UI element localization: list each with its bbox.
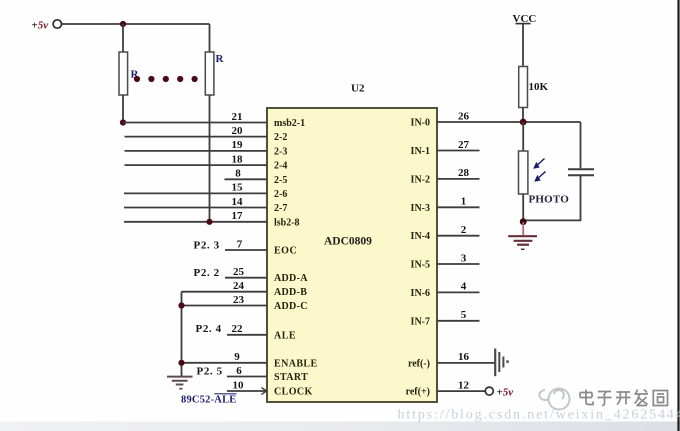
node junction line23/vertical — [178, 302, 184, 308]
wire ADD-A pin 25 — [225, 277, 267, 279]
op chip U2 ADC0809 — [267, 83, 437, 403]
svg-text:2-3: 2-3 — [274, 146, 287, 157]
svg-text:12: 12 — [458, 379, 470, 391]
wire R1 bottom leg — [122, 95, 124, 123]
wire ref(+) pin 12 — [437, 390, 485, 392]
svg-text:IN-7: IN-7 — [411, 316, 430, 327]
svg-text:P2. 4: P2. 4 — [196, 323, 222, 335]
svg-text:U2: U2 — [351, 83, 365, 95]
wire stub pin 4 — [437, 291, 480, 293]
wire ADD-C pin 23 — [182, 305, 268, 307]
svg-text:+5v: +5v — [32, 20, 49, 32]
svg-text:msb2-1: msb2-1 — [274, 118, 305, 129]
wire data line pin 19 — [125, 150, 268, 152]
wire CLOCK pin 10 — [227, 390, 267, 392]
svg-text:IN-6: IN-6 — [411, 288, 430, 299]
svg-text:19: 19 — [232, 139, 244, 151]
svg-text:EOC: EOC — [274, 246, 297, 257]
resistor R (left) — [119, 52, 140, 95]
svg-text:ADC0809: ADC0809 — [324, 235, 372, 247]
svg-text:ADD-B: ADD-B — [274, 287, 307, 298]
ground (ref- rotated bars) — [495, 349, 503, 377]
wire ALE pin 22 — [227, 334, 267, 336]
svg-text:P2. 5: P2. 5 — [197, 365, 223, 377]
svg-text:CLOCK: CLOCK — [274, 387, 313, 398]
clock input arrow — [262, 388, 267, 395]
svg-text:IN-2: IN-2 — [411, 174, 430, 185]
svg-text:PHOTO: PHOTO — [529, 194, 570, 206]
wire photo top leg — [522, 122, 524, 151]
wire capacitor branch down — [580, 122, 582, 168]
wire stub pin 3 — [437, 263, 480, 265]
svg-text:+5v: +5v — [497, 387, 514, 399]
svg-text:2-5: 2-5 — [274, 175, 287, 186]
node junction top rail / R1 — [120, 21, 126, 27]
svg-text:2-2: 2-2 — [274, 132, 287, 143]
wire IN-0 net pin 26 — [437, 121, 581, 123]
wire VCC to R3 — [522, 24, 524, 66]
wire EOC pin 7 — [225, 249, 267, 251]
svg-text:ADD-A: ADD-A — [274, 273, 308, 284]
svg-text:2: 2 — [461, 224, 467, 236]
right image border edge — [677, 0, 679, 431]
svg-text:5: 5 — [461, 309, 467, 321]
light arrows — [533, 159, 545, 182]
svg-text:10: 10 — [233, 379, 245, 391]
wire stub pin 28 — [437, 178, 480, 180]
svg-text:lsb2-8: lsb2-8 — [274, 217, 300, 228]
ground (photo, red) — [508, 236, 537, 249]
capacitor C1 — [568, 169, 594, 175]
svg-text:24: 24 — [233, 280, 245, 292]
svg-text:18: 18 — [232, 153, 244, 165]
photoresistor PHOTO — [519, 151, 570, 206]
svg-text:15: 15 — [232, 182, 244, 194]
svg-text:IN-5: IN-5 — [411, 260, 430, 271]
svg-text:7: 7 — [237, 238, 243, 250]
node +5v terminal (top-left) — [32, 20, 62, 32]
svg-text:28: 28 — [458, 167, 470, 179]
node junction line9/vertical — [178, 360, 184, 366]
svg-text:2-4: 2-4 — [274, 161, 287, 172]
svg-text:22: 22 — [232, 323, 244, 335]
wire R1 top leg — [122, 24, 124, 52]
svg-text:21: 21 — [232, 111, 243, 123]
watermark title 电子开发圈 — [580, 390, 668, 406]
wire data line pin 20 — [125, 136, 268, 138]
wire R2 bottom leg — [209, 95, 211, 222]
wire stub pin 2 — [437, 235, 480, 237]
svg-text:16: 16 — [458, 351, 470, 363]
svg-text:1: 1 — [461, 196, 467, 208]
svg-text:2-6: 2-6 — [274, 189, 287, 200]
svg-text:2-7: 2-7 — [274, 203, 287, 214]
node junction line17/R2 — [206, 219, 212, 225]
wire stub pin 5 — [437, 320, 480, 322]
svg-text:25: 25 — [233, 266, 245, 278]
wire vertical bus P2.x — [181, 292, 183, 377]
svg-text:P2. 3: P2. 3 — [194, 240, 220, 252]
svg-text:ADD-C: ADD-C — [274, 301, 308, 312]
svg-text:8: 8 — [235, 168, 241, 180]
svg-text:ENABLE: ENABLE — [274, 358, 318, 369]
wire data line pin 14 — [124, 207, 267, 209]
svg-text:10K: 10K — [529, 81, 549, 93]
svg-text:20: 20 — [232, 125, 244, 137]
wire stub pin 1 — [437, 206, 480, 208]
wire top +5v rail — [62, 23, 210, 25]
svg-text:IN-1: IN-1 — [411, 146, 430, 157]
wire data line pin 18 — [125, 164, 268, 166]
svg-text:IN-0: IN-0 — [411, 118, 430, 129]
svg-text:6: 6 — [236, 365, 242, 377]
resistor R (right) — [205, 52, 224, 95]
ellipsis dots (more resistors) — [134, 76, 198, 82]
ground dot mark — [506, 360, 509, 363]
svg-text:ref(-): ref(-) — [408, 359, 430, 370]
svg-text:https://blog.csdn.net/weixin_4: https://blog.csdn.net/weixin_42625444 — [398, 408, 680, 423]
svg-text:IN-4: IN-4 — [411, 231, 430, 242]
node +5v terminal (ref+) — [485, 387, 513, 399]
node VCC power — [513, 13, 537, 25]
svg-text:ALE: ALE — [274, 330, 296, 341]
wire ground stub (red) — [522, 222, 524, 235]
svg-text:P2. 2: P2. 2 — [194, 267, 220, 279]
svg-text:89C52-ALE: 89C52-ALE — [181, 394, 236, 405]
node junction IN-0/R3/photo — [520, 119, 527, 126]
wire data line pin 21 — [123, 122, 267, 124]
wire photo bottom leg — [522, 194, 524, 222]
svg-text:R: R — [216, 53, 225, 65]
wire data line pin 15 — [124, 192, 267, 194]
wire ENABLE pin 9 — [182, 362, 268, 364]
resistor 10K — [519, 67, 549, 108]
wire stub pin 8 — [225, 178, 268, 180]
svg-text:27: 27 — [458, 139, 470, 151]
wire ADD-B pin 24 with corner — [182, 291, 268, 293]
svg-text:4: 4 — [461, 281, 467, 293]
svg-text:3: 3 — [461, 252, 467, 264]
svg-text:ref(+): ref(+) — [406, 387, 430, 398]
wire capacitor bottom leg — [523, 176, 580, 220]
svg-text:IN-3: IN-3 — [411, 203, 430, 214]
wire right rail corner to R2 — [209, 24, 211, 52]
svg-text:23: 23 — [233, 294, 245, 306]
wire data line pin 17 — [124, 221, 267, 223]
wire ref(-) pin 16 — [437, 362, 495, 364]
node junction line21/R1 — [120, 119, 126, 125]
svg-text:START: START — [274, 372, 308, 383]
svg-text:17: 17 — [232, 210, 244, 222]
svg-text:14: 14 — [232, 196, 244, 208]
wire stub pin 27 — [437, 150, 480, 152]
wire START pin 6 — [227, 376, 267, 378]
ground (left, under P2 bus) — [167, 377, 193, 389]
node junction photo/cap/gnd — [520, 218, 527, 225]
watermark logo — [539, 389, 569, 410]
svg-text:26: 26 — [458, 111, 470, 123]
wire R3 bottom to IN-0 — [522, 108, 524, 123]
svg-text:9: 9 — [234, 351, 240, 363]
